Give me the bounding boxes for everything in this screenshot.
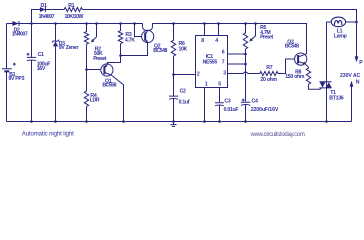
wire N arrowhead — [350, 81, 354, 87]
svg-text:BC558: BC558 — [102, 82, 116, 88]
svg-text:NE555: NE555 — [203, 60, 218, 66]
svg-text:Preset: Preset — [93, 56, 106, 62]
R2 preset wiper arrow — [93, 24, 97, 41]
ground rail — [7, 121, 352, 123]
capacitor C3 0.01uF plates — [215, 103, 224, 106]
wire N neutral line — [351, 86, 353, 121]
wire Q1 emitter up and over to R3 junction — [108, 56, 121, 65]
wire C4 bottom to ground — [245, 105, 247, 122]
resistor R3 4.7K — [118, 24, 122, 56]
diode D1 1N4007 — [40, 7, 45, 12]
svg-text:9V PP3: 9V PP3 — [8, 76, 24, 82]
battery B1 long plate — [2, 68, 12, 70]
wire Q1 collector diagonal to ground — [111, 75, 124, 122]
resistor R1 10K/10W — [64, 7, 82, 11]
wire R7 to Q3 base — [278, 59, 295, 74]
svg-text:9V Zener: 9V Zener — [59, 45, 79, 51]
wire C2 bottom to ground — [173, 99, 175, 122]
svg-text:1N4007: 1N4007 — [39, 14, 55, 20]
svg-text:C1: C1 — [38, 52, 44, 58]
C1 plus sign — [27, 53, 30, 56]
lamp filament — [334, 21, 342, 25]
svg-text:20 ohm: 20 ohm — [260, 77, 277, 83]
svg-text:D1: D1 — [41, 3, 47, 9]
svg-text:R7: R7 — [266, 65, 272, 71]
svg-text:BC548: BC548 — [285, 44, 299, 50]
wire P phase arrowhead — [355, 56, 359, 62]
C4 plus mark — [242, 99, 245, 102]
capacitor C2 0.1uF plates — [169, 96, 178, 99]
svg-text:4.7K: 4.7K — [125, 38, 135, 44]
svg-text:10K/10W: 10K/10W — [65, 14, 84, 20]
svg-text:7: 7 — [222, 60, 225, 66]
svg-text:C3: C3 — [224, 98, 230, 104]
diode D2 1N4007 — [12, 21, 18, 26]
svg-text:Preset: Preset — [260, 35, 273, 41]
svg-text:www.circuitstoday.com: www.circuitstoday.com — [250, 132, 305, 138]
transistor Q2 BC548 — [142, 30, 154, 42]
wire top rail with right-side drop to P — [32, 10, 357, 57]
op-amp U1 IC1 NE555 box — [196, 36, 228, 88]
svg-text:R1: R1 — [68, 3, 74, 9]
resistor R2 50K preset body — [84, 24, 88, 92]
svg-text:Automatic night light: Automatic night light — [22, 132, 74, 138]
wire +V rail left piece through D2 — [7, 23, 143, 25]
svg-text:2200uF/16V: 2200uF/16V — [251, 107, 279, 113]
svg-text:C2: C2 — [180, 88, 186, 94]
wire left vertical to battery — [6, 24, 8, 69]
capacitor C1 100uF plates — [27, 57, 36, 60]
ground symbol under C2 line — [170, 122, 176, 127]
svg-text:5: 5 — [218, 82, 221, 88]
pin 8 wire — [204, 24, 206, 36]
triac T1 triangles — [320, 82, 326, 88]
resistor R8 150 ohm — [305, 64, 321, 90]
wire rail under-hop at Q2 collector — [143, 23, 153, 30]
svg-text:0.1uf: 0.1uf — [179, 99, 190, 105]
zener D3 wires — [55, 24, 57, 122]
svg-text:C4: C4 — [252, 98, 258, 104]
svg-text:1: 1 — [205, 82, 208, 88]
svg-text:Lamp: Lamp — [334, 33, 347, 39]
resistor R5 4.7M preset with C4 feed — [243, 24, 247, 102]
svg-text:P: P — [359, 60, 363, 66]
triac T1 BT136 bars — [319, 82, 331, 88]
svg-text:10K: 10K — [179, 46, 188, 52]
pin 4 wire — [218, 24, 220, 36]
pin 5 wire to C3 — [219, 88, 221, 103]
svg-text:2: 2 — [197, 71, 200, 77]
wire C3 bottom to ground — [219, 105, 221, 121]
pin 1 wire to ground — [204, 88, 206, 122]
wire Q2 base from rail — [135, 24, 142, 37]
svg-text:230V AC: 230V AC — [340, 73, 361, 79]
svg-text:BC548: BC548 — [153, 48, 167, 54]
svg-text:N: N — [356, 79, 360, 85]
wire D1 corner tap down to C1 — [31, 24, 33, 58]
wire +V rail right piece ending above Q3 — [153, 24, 307, 55]
svg-text:150 ohm: 150 ohm — [285, 74, 305, 80]
battery B1 short plate — [4, 70, 9, 72]
transistor Q1 BC558 — [101, 64, 113, 76]
wire C1 bottom to ground — [31, 60, 33, 121]
LDR R4 body — [84, 91, 88, 121]
R5 preset wiper arrow — [251, 24, 256, 41]
pin 3 wire with hop over C4 line — [228, 72, 260, 74]
svg-text:6: 6 — [222, 50, 225, 56]
wire lamp right lead — [346, 21, 357, 23]
svg-text:1N4007: 1N4007 — [12, 31, 28, 37]
resistor R7 20 ohm — [260, 71, 278, 75]
svg-text:4: 4 — [215, 38, 218, 44]
wire Q1 base — [87, 69, 101, 71]
pin 6 wire — [228, 53, 246, 55]
transistor Q3 BC548 — [295, 53, 307, 65]
wire lamp left lead / triac vertical — [327, 22, 332, 122]
wire emitter junction to Q2 — [121, 43, 148, 56]
pin 7 wire — [228, 63, 246, 65]
zener D3 symbol — [53, 41, 58, 46]
resistor R6 10K — [171, 24, 175, 96]
wire 555 pin 2 — [174, 74, 196, 76]
svg-text:0.01uF: 0.01uF — [224, 107, 239, 113]
svg-text:3: 3 — [223, 70, 226, 76]
svg-text:16V: 16V — [37, 66, 46, 72]
svg-text:LDR: LDR — [90, 98, 100, 104]
svg-text:8: 8 — [201, 38, 204, 44]
battery plus sign — [13, 63, 16, 66]
capacitor C4 2200uF/16V plates — [241, 102, 251, 105]
wire battery bottom lead — [6, 72, 8, 122]
svg-text:BT136: BT136 — [329, 96, 343, 102]
lamp L1 ellipse — [331, 17, 345, 27]
